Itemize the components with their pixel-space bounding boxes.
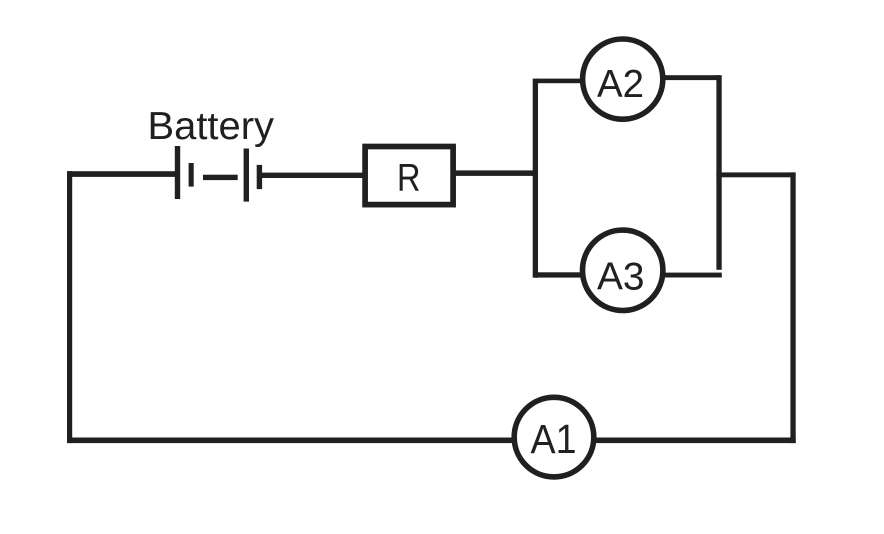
svg-text:A3: A3 — [597, 256, 645, 299]
battery cell 1 long plate (+) — [175, 146, 180, 199]
wire: battery to resistor — [260, 173, 363, 178]
svg-text:A2: A2 — [597, 63, 644, 106]
wire: parallel left bus (vertical) — [533, 79, 538, 278]
wire: resistor to parallel left bus — [455, 170, 535, 176]
wire: left bus to ammeter A3 — [535, 272, 585, 277]
wire: link between battery cells — [203, 175, 238, 180]
wire: ammeter A2 to right bus — [662, 75, 720, 80]
wire: outer right vertical side — [790, 172, 795, 443]
battery (two cells) — [175, 146, 262, 202]
ammeter A2 — [583, 39, 663, 119]
ammeter A3 — [583, 230, 663, 310]
battery cell 2 long plate (+) — [244, 149, 249, 202]
wire: ammeter A3 to right overshoot — [660, 273, 722, 278]
wire: bottom horizontal — [67, 438, 796, 444]
wire: top-left horizontal to battery — [67, 171, 177, 177]
svg-text:R: R — [397, 157, 421, 200]
wire: right bus exit to outer right side — [716, 172, 795, 177]
ammeter A1 — [514, 397, 594, 477]
svg-text:Battery: Battery — [148, 105, 275, 148]
battery cell 1 short plate (-) — [189, 163, 194, 187]
battery cell 2 short plate (-) — [257, 165, 262, 189]
wire: left vertical side — [67, 171, 72, 443]
wire: parallel right bus (vertical) — [716, 75, 721, 270]
resistor R — [365, 147, 453, 205]
svg-text:A1: A1 — [531, 416, 577, 462]
wire: left bus to ammeter A2 — [536, 79, 584, 84]
